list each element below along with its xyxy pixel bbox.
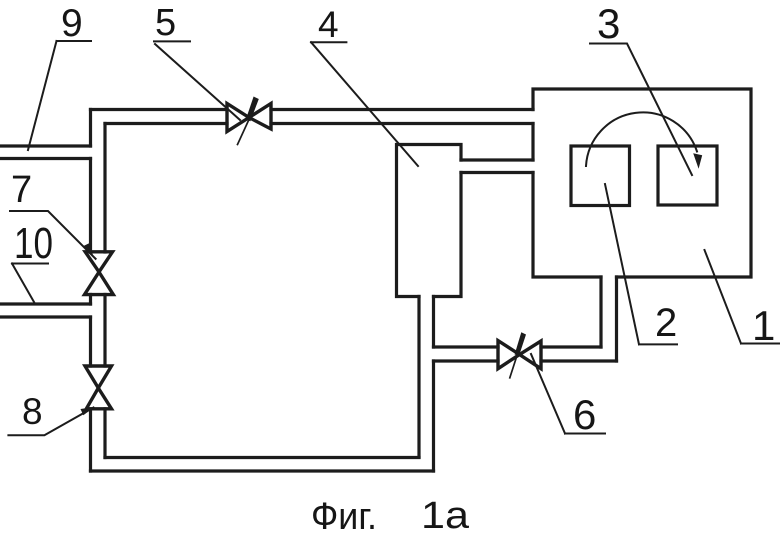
- pipe: top run lower line (right of valve 5): [271, 122, 533, 125]
- label 10 leader: [12, 264, 48, 303]
- pipe: riser under box 1: [601, 277, 617, 361]
- valve 6: [498, 341, 541, 369]
- element 2 (left inner square): [571, 146, 630, 206]
- pipe: top run upper line (left of valve 5): [91, 108, 228, 111]
- valve 8: [85, 366, 112, 409]
- svg-text:7: 7: [11, 169, 32, 211]
- pipe: riser under vessel 4: [419, 297, 434, 472]
- pipe: inlet 9: [0, 146, 91, 159]
- valve 6 stem slash: [515, 332, 526, 356]
- svg-text:4: 4: [318, 4, 339, 45]
- svg-text:2: 2: [655, 301, 677, 345]
- label 7 arrowhead: [84, 243, 94, 256]
- pipe: left vertical inner line: [103, 124, 106, 458]
- svg-text:3: 3: [597, 0, 620, 47]
- valve 7: [85, 252, 114, 295]
- svg-text:Фиг.: Фиг.: [311, 496, 377, 538]
- label 1 leader: [705, 250, 780, 344]
- pipe: left vertical outer line: [89, 110, 92, 472]
- pipe: bottom run: [91, 458, 434, 472]
- label 6 leader: [531, 354, 605, 434]
- svg-text:6: 6: [573, 391, 596, 438]
- pipe: inlet 10: [0, 304, 91, 317]
- label 2 leader: [605, 184, 677, 344]
- rotation arc arrow: [586, 112, 697, 166]
- label 8 arrowhead: [81, 407, 95, 415]
- label 4 leader: [311, 42, 418, 166]
- svg-text:1а: 1а: [421, 495, 470, 537]
- svg-text:5: 5: [155, 2, 176, 44]
- vessel 4 (tall box): [397, 145, 462, 297]
- pipe: top run upper line (right of valve 5): [271, 108, 533, 111]
- pipe: valve 6 run: [434, 347, 617, 361]
- label 5 leader: [154, 41, 240, 120]
- svg-text:9: 9: [61, 2, 83, 45]
- label 9 leader: [28, 41, 91, 150]
- label 8 leader: [8, 408, 93, 436]
- svg-text:1: 1: [752, 302, 775, 349]
- apparatus 1 (large box): [533, 89, 751, 277]
- svg-text:10: 10: [14, 219, 53, 268]
- element 3 (right inner square): [658, 146, 717, 205]
- label 7 leader: [10, 211, 96, 259]
- valve 5: [227, 104, 271, 132]
- valve 5 stem slash: [246, 97, 259, 122]
- arc arrowhead: [693, 153, 702, 169]
- pipe: top run lower line (left of valve 5): [105, 122, 227, 125]
- label 3 leader: [590, 44, 692, 176]
- svg-text:8: 8: [22, 391, 43, 432]
- pipe: vessel 4 to box 1: [461, 160, 533, 173]
